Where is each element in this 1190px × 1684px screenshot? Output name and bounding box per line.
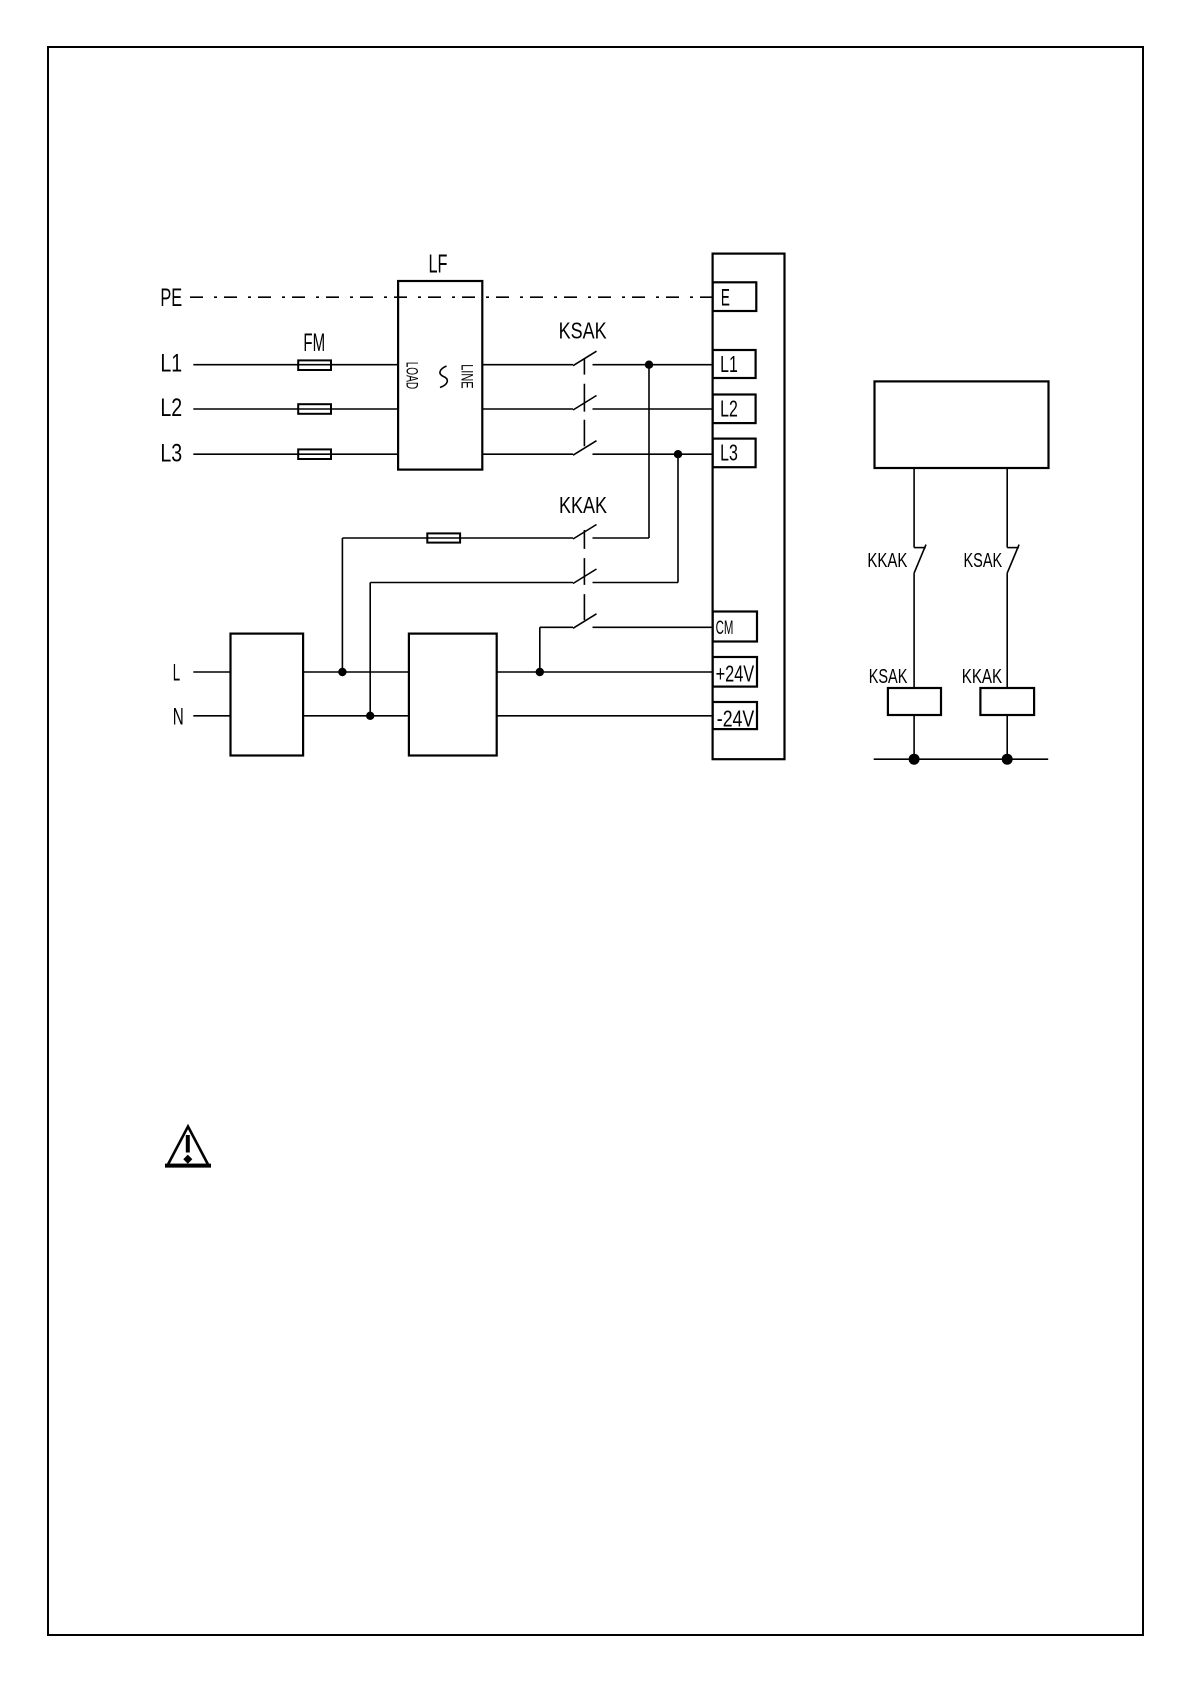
wire CM drop	[539, 627, 541, 672]
block box1	[231, 634, 304, 756]
switch KSAK pole3 blade	[573, 441, 597, 456]
wire N right	[497, 715, 713, 717]
wire L3 switch to terminal	[593, 453, 713, 455]
wire KKAK1 left	[342, 537, 573, 539]
svg-text:-24V: -24V	[717, 706, 755, 732]
coil KSAK box	[888, 688, 941, 715]
wire L1 left	[193, 364, 398, 366]
switch KKAK linkage dashes	[583, 530, 585, 620]
svg-text:KSAK: KSAK	[559, 317, 608, 343]
wire L2 switch to terminal	[593, 408, 713, 410]
relay unit box	[875, 381, 1049, 468]
wire drop from L1 to KKAK1	[648, 365, 650, 538]
svg-text:FM: FM	[303, 329, 325, 357]
switch KSAK pole2 blade	[573, 396, 597, 411]
terminal L3 box	[713, 439, 756, 468]
fuse FM1	[298, 360, 331, 370]
coil KKAK box	[980, 688, 1034, 715]
wire relay right bottom	[1006, 715, 1008, 759]
svg-text:E: E	[721, 284, 730, 311]
filter LF box	[398, 281, 482, 470]
wire relay left mid	[913, 573, 915, 688]
wire N left	[193, 715, 230, 717]
svg-text:LF: LF	[429, 249, 448, 279]
junction dot bus right	[1002, 754, 1013, 765]
wire bottom bus	[874, 758, 1048, 760]
AC squiggle inside LF	[440, 366, 447, 388]
wire relay left bottom	[913, 715, 915, 759]
wire relay right mid	[1006, 573, 1008, 688]
junction dot L1	[645, 361, 653, 369]
svg-text:LINE: LINE	[458, 364, 477, 388]
svg-text:N: N	[173, 703, 184, 730]
junction dot bus left	[909, 754, 920, 765]
svg-text:L1: L1	[720, 351, 738, 377]
wire PE dash-dot	[190, 296, 713, 298]
wire KKAK2 drop to N	[369, 583, 371, 716]
wire L3 LF to switch	[482, 453, 573, 455]
junction dot KKAK1/L	[338, 668, 346, 676]
wire L mid	[303, 671, 409, 673]
svg-text:+24V: +24V	[716, 661, 755, 687]
svg-text:CM: CM	[716, 618, 734, 639]
block box2	[409, 634, 497, 756]
junction dot L3	[674, 450, 682, 458]
wire KKAK1 drop to L	[341, 538, 343, 672]
warning triangle base bar	[165, 1164, 211, 1168]
svg-text:L: L	[173, 659, 180, 686]
switch KKAK pole2 blade	[573, 569, 597, 584]
terminal L1 box	[713, 350, 756, 378]
svg-text:KKAK: KKAK	[867, 549, 907, 572]
terminal CM box	[713, 612, 757, 642]
switch KSAK pole1 blade	[573, 351, 597, 366]
wire relay left top	[913, 467, 915, 547]
wire KKAK2 left	[370, 582, 573, 584]
contact KKAK NC blade	[914, 545, 926, 574]
terminal L2 box	[713, 395, 756, 424]
wire CM right	[593, 626, 713, 628]
switch KKAK pole3 blade	[573, 614, 597, 629]
terminal -24V box	[713, 702, 757, 729]
svg-text:L1: L1	[160, 350, 182, 378]
wire L3 left	[193, 453, 398, 455]
wire drop from L3 to KKAK2	[677, 454, 679, 582]
wire L1 LF to switch	[482, 364, 573, 366]
junction dot CM/L	[536, 668, 544, 676]
terminal strip outer box	[713, 254, 785, 760]
junction dot KKAK2/N	[366, 712, 374, 720]
switch KSAK linkage dashes	[583, 358, 585, 446]
svg-text:KKAK: KKAK	[962, 665, 1003, 688]
wire N mid	[303, 715, 409, 717]
wire relay right top	[1006, 467, 1008, 547]
terminal E box	[713, 282, 757, 311]
wire L2 LF to switch	[482, 408, 573, 410]
svg-text:L2: L2	[720, 395, 738, 421]
svg-text:KSAK: KSAK	[869, 665, 908, 688]
svg-text:KKAK: KKAK	[559, 492, 608, 518]
wire L right	[497, 671, 713, 673]
warning triangle	[168, 1127, 209, 1166]
wire L1 switch to terminal	[593, 364, 713, 366]
contact KSAK NC blade	[1007, 545, 1019, 574]
switch KKAK pole1 blade	[573, 525, 597, 540]
wire L2 left	[193, 408, 398, 410]
svg-text:PE: PE	[160, 284, 182, 312]
contact KKAK NC tick	[914, 547, 926, 549]
fuse control	[427, 533, 460, 542]
svg-text:L2: L2	[160, 394, 182, 422]
fuse FM2	[298, 404, 331, 414]
wire L left	[193, 671, 230, 673]
wire CM left	[540, 626, 573, 628]
contact KSAK NC tick	[1007, 547, 1019, 549]
svg-text:L3: L3	[720, 440, 738, 466]
svg-text:LOAD: LOAD	[403, 362, 422, 389]
warning exclamation dot	[183, 1155, 192, 1164]
fuse FM3	[298, 449, 331, 459]
svg-text:KSAK: KSAK	[964, 549, 1003, 572]
svg-text:L3: L3	[160, 439, 182, 467]
warning exclamation bar	[186, 1135, 190, 1153]
terminal +24V box	[713, 657, 757, 687]
wire KKAK1 right	[593, 537, 650, 539]
wire KKAK2 right	[593, 582, 679, 584]
